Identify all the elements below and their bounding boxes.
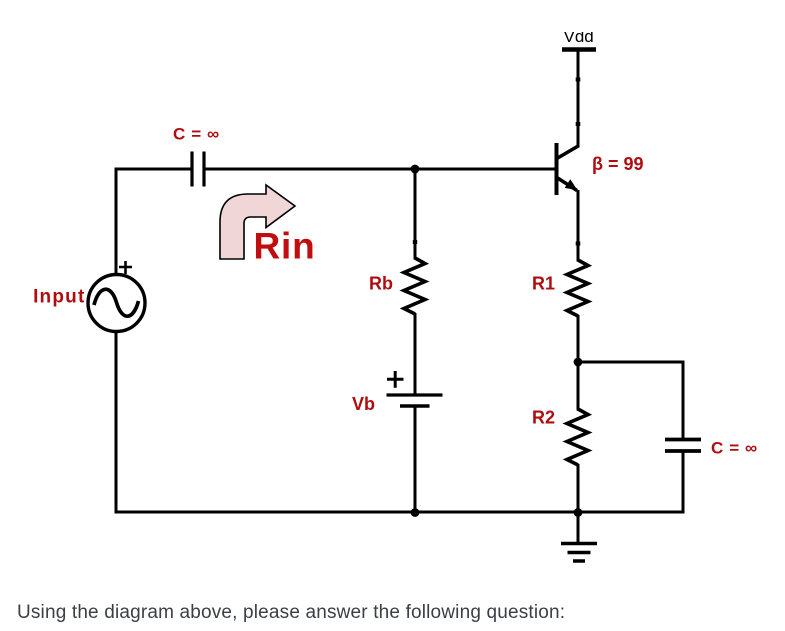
transistor Q1 base bar xyxy=(555,143,559,195)
caption text xyxy=(17,602,565,624)
source V1 sine wave xyxy=(94,289,139,316)
wire top rail: source to capacitor xyxy=(116,168,192,171)
svg-text:Input: Input xyxy=(33,287,85,308)
node junction dot Vb branch at bottom rail xyxy=(411,508,420,517)
svg-text:Vb: Vb xyxy=(352,394,375,414)
wire node A to R2 xyxy=(577,362,580,411)
wire node A to bypass capacitor branch xyxy=(577,362,684,440)
source V1 plus sign xyxy=(119,261,132,274)
svg-text:R2: R2 xyxy=(532,408,555,428)
wire bypass capacitor to bottom rail xyxy=(682,451,685,514)
source V1 Input circle xyxy=(88,275,145,332)
wire Rb to battery Vb xyxy=(414,313,417,395)
node junction dot ground at bottom rail xyxy=(574,508,583,517)
transistor Q1 emitter arrowhead xyxy=(565,179,578,190)
segment handle nub on collector wire (upper) xyxy=(576,78,581,82)
power rail Vdd bar xyxy=(562,47,596,52)
segment handle nub on emitter wire xyxy=(576,242,581,246)
transistor Q1 emitter diagonal xyxy=(556,177,577,191)
svg-text:R1: R1 xyxy=(532,274,555,294)
wire emitter to R1 xyxy=(577,190,580,262)
resistor R1 zigzag xyxy=(567,260,588,316)
wire collector to Vdd rail xyxy=(577,48,580,146)
svg-text:C = ∞: C = ∞ xyxy=(711,439,758,458)
Rin curved arrow xyxy=(220,185,295,259)
battery Vb plus sign xyxy=(387,371,404,388)
svg-text:Rb: Rb xyxy=(369,274,393,294)
wire left: top corner down to source xyxy=(115,168,118,276)
capacitor C1 (C = inf) input coupling plates xyxy=(192,152,204,187)
transistor Q1 collector diagonal xyxy=(556,146,579,160)
wire bottom rail xyxy=(115,511,684,514)
svg-text:Rin: Rin xyxy=(254,226,316,267)
white clip over Vdd ascenders xyxy=(555,18,605,32)
svg-text:β = 99: β = 99 xyxy=(592,154,644,174)
resistor Rb zigzag xyxy=(404,258,425,314)
wire R1 to node A xyxy=(577,315,580,362)
segment handle nub on Rb branch wire xyxy=(413,240,417,244)
segment handle nub on collector wire (lower) xyxy=(576,122,581,126)
battery Vb long positive plate xyxy=(387,393,443,396)
wire R2 to bottom rail xyxy=(577,464,580,512)
wire Rb branch: top rail to Rb xyxy=(414,169,417,260)
ground symbol xyxy=(577,512,580,543)
capacitor C2 (C = inf) bypass plates xyxy=(665,440,701,452)
node A junction dot (R1/R2/capacitor) xyxy=(574,358,583,367)
battery Vb short negative plate xyxy=(400,404,430,408)
resistor R2 zigzag xyxy=(567,409,588,465)
node junction dot at base/Rb on top rail xyxy=(411,165,420,174)
wire left: source down to bottom rail xyxy=(115,331,118,514)
wire battery Vb to bottom rail xyxy=(414,406,417,512)
wire top rail: capacitor to transistor base xyxy=(204,168,555,171)
svg-text:C = ∞: C = ∞ xyxy=(173,125,220,144)
